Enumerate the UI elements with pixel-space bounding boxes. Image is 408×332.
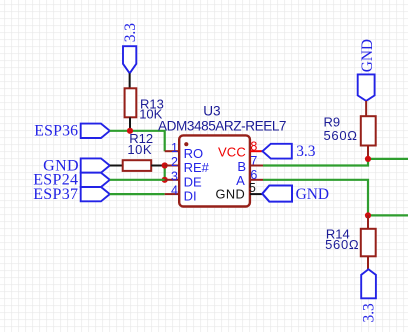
resistor R13 [125,88,137,117]
svg-text:DI: DI [184,189,197,204]
wire [110,131,165,151]
junction [162,177,168,183]
junction [162,162,168,168]
wire [367,215,369,228]
svg-text:3.3: 3.3 [122,23,139,43]
pin 4 stub [165,193,180,195]
wire [368,214,408,216]
wire B net [263,159,368,166]
svg-text:1: 1 [171,141,178,155]
wire [368,158,408,160]
svg-text:U3: U3 [203,104,220,119]
svg-text:RO: RO [184,146,204,161]
svg-text:4: 4 [171,184,178,198]
pin 5 stub [250,193,263,195]
pin 1 stub [165,150,180,152]
pin1 indicator dot [184,142,188,146]
pin 3 stub [165,179,180,181]
svg-text:GND: GND [359,39,376,72]
wire [129,117,131,131]
wire A net [263,180,368,216]
svg-text:DE: DE [184,174,202,189]
svg-text:GND: GND [216,186,246,201]
pin 2 stub [165,165,180,167]
svg-text:B: B [237,159,246,174]
svg-text:2: 2 [171,155,178,169]
svg-text:GND: GND [296,186,329,203]
power flag 3.3 (bottom) [361,269,376,298]
pin 6 stub [250,179,263,181]
junction [127,128,133,134]
junction B [365,156,371,162]
svg-text:3.3: 3.3 [360,303,377,323]
pin 7 stub [250,165,263,167]
wire [151,165,165,167]
svg-text:RE#: RE# [184,160,210,175]
svg-text:VCC: VCC [218,145,246,160]
IC U3 body [179,135,250,206]
svg-text:560Ω: 560Ω [325,237,359,252]
pin 8 stub [250,150,263,152]
wire [365,101,367,116]
svg-text:3.3: 3.3 [296,143,316,160]
wire [110,179,165,181]
junction A [365,212,371,218]
wire [367,146,369,159]
svg-text:3: 3 [171,169,178,183]
svg-text:5: 5 [249,181,256,195]
wire [164,166,166,180]
wire [110,193,165,195]
wire [110,165,123,167]
svg-text:10K: 10K [127,142,152,157]
svg-text:560Ω: 560Ω [324,128,358,143]
svg-text:ADM3485ARZ-REEL7: ADM3485ARZ-REEL7 [158,118,286,133]
net flag GND (pin 5) [262,186,292,202]
net flag 3.3 (pin 8) [263,144,292,159]
wire [367,256,369,269]
wire [129,73,131,88]
svg-text:ESP36: ESP36 [34,123,78,140]
svg-text:ESP37: ESP37 [33,186,78,203]
